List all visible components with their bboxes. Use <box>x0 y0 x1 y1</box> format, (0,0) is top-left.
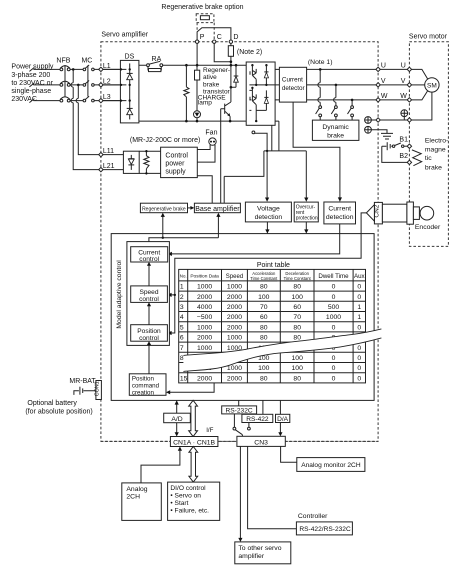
wire L21 to rectifier <box>103 169 123 171</box>
svg-text:7: 7 <box>180 345 184 352</box>
svg-text:supply: supply <box>165 169 186 176</box>
svg-text:100: 100 <box>292 355 304 362</box>
svg-text:detector: detector <box>282 85 305 92</box>
servo amplifier dashed enclosure <box>101 42 378 442</box>
break squiggle across table <box>183 329 381 372</box>
arrow command to position control <box>147 341 151 374</box>
battery MR-BAT <box>69 378 96 395</box>
svg-text:Fan: Fan <box>205 129 217 136</box>
ground PE amp 2 <box>365 126 372 133</box>
arrow CN3 to other servo amplifier <box>238 446 242 542</box>
analog 2CH box <box>122 483 161 521</box>
wire fan supply 2 <box>197 145 215 162</box>
svg-text:Position: Position <box>132 376 155 383</box>
terminal B2 <box>407 160 411 164</box>
terminal B1 <box>407 144 411 148</box>
svg-text:L2: L2 <box>103 78 111 85</box>
svg-text:RS-232C: RS-232C <box>226 407 253 414</box>
node bus diode <box>235 64 238 67</box>
svg-text:80: 80 <box>293 375 301 382</box>
wire U amp to motor <box>380 68 407 70</box>
DI/O control box <box>168 482 220 520</box>
control section box <box>111 234 374 401</box>
svg-text:CON1: CON1 <box>95 381 101 396</box>
svg-text:Position: Position <box>137 328 161 335</box>
svg-text:Encoder: Encoder <box>415 224 441 231</box>
wire gate bus to bottom rail <box>278 121 280 151</box>
wire SM frame ground <box>412 92 432 120</box>
svg-text:control: control <box>139 335 159 342</box>
svg-text:Servo motor: Servo motor <box>409 33 448 40</box>
terminal P <box>195 34 204 43</box>
svg-text:brake: brake <box>425 164 442 171</box>
arrow D/A to CN3 <box>278 423 282 437</box>
svg-text:Aux: Aux <box>354 273 366 280</box>
svg-text:V: V <box>401 78 406 85</box>
controller RS-422/RS-232C box <box>296 522 352 535</box>
node bus P <box>196 64 199 67</box>
node L1 tap <box>72 68 75 71</box>
svg-text:L21: L21 <box>103 163 115 170</box>
svg-text:80: 80 <box>260 284 268 291</box>
current detection box <box>324 202 356 224</box>
label regenerative brake transistor <box>203 67 231 96</box>
dynamic brake contacts channel V <box>331 85 337 120</box>
breaker NFB pole 3 <box>60 97 70 102</box>
wire P to bus <box>196 43 198 65</box>
wire CN3 to analog monitor <box>281 446 297 462</box>
svg-text:Time Constant: Time Constant <box>284 276 312 281</box>
svg-text:100: 100 <box>258 294 270 301</box>
wire point table to position command creation <box>166 383 214 395</box>
node bottom emitter <box>229 120 232 123</box>
svg-text:DS: DS <box>125 53 135 60</box>
wire input L3 row <box>29 99 120 103</box>
wire motor V to SM <box>412 84 425 86</box>
encoder body <box>382 202 433 224</box>
overcurrent protection box <box>294 202 318 222</box>
svg-text:(Note 2): (Note 2) <box>237 49 262 56</box>
wire W amp to motor <box>380 99 407 101</box>
svg-text:control: control <box>139 256 159 263</box>
electromagnetic brake coil mark <box>412 150 422 166</box>
motor SM <box>425 78 439 92</box>
svg-text:Current: Current <box>282 76 303 83</box>
svg-text:detection: detection <box>326 214 354 221</box>
contactor MC pole 3 <box>83 96 94 102</box>
node U tap <box>319 68 322 71</box>
svg-text:2000: 2000 <box>227 375 242 382</box>
model adaptive control inner box <box>127 242 169 346</box>
MC mechanical link <box>87 65 89 96</box>
regenerative brake control box <box>140 203 187 213</box>
node L2 tap <box>77 84 80 87</box>
svg-text:1000: 1000 <box>197 324 212 331</box>
point table grid <box>179 269 366 383</box>
svg-text:Base amplifier: Base amplifier <box>195 206 240 213</box>
speed control box <box>131 286 168 303</box>
interface bus arrow CN1B to DIO <box>189 447 198 483</box>
rectifier DS <box>120 53 139 123</box>
svg-text:detection: detection <box>255 214 283 221</box>
svg-text:0: 0 <box>332 365 336 372</box>
svg-text:2000: 2000 <box>227 314 242 321</box>
contactor MC pole 2 <box>83 81 94 87</box>
node V tap <box>335 84 338 87</box>
wire motor U to SM <box>412 69 428 79</box>
svg-text:60: 60 <box>293 304 301 311</box>
svg-text:ative: ative <box>203 74 217 81</box>
wire L2 tap down to L11 <box>76 85 99 155</box>
arrow voltage detection to control <box>265 222 269 234</box>
terminal U amp <box>376 63 386 72</box>
wire V amp to motor <box>380 84 407 86</box>
svg-text:Regenerative brake option: Regenerative brake option <box>161 4 243 11</box>
current control box <box>131 247 168 263</box>
wire input L2 row <box>29 83 120 87</box>
node bottom lamp <box>196 120 199 123</box>
svg-text:brake: brake <box>203 81 220 88</box>
wire L1 tap down to L21 <box>71 69 99 169</box>
svg-text:W: W <box>400 93 407 100</box>
analog monitor 2CH box <box>297 458 365 472</box>
current detector <box>279 67 306 102</box>
svg-text:2: 2 <box>180 294 184 301</box>
svg-text:80: 80 <box>260 375 268 382</box>
wire gate bus from module <box>264 125 306 151</box>
svg-text:Dynamic: Dynamic <box>322 124 349 131</box>
resistor regenerative brake <box>195 65 200 111</box>
svg-text:Time Constant: Time Constant <box>250 276 278 281</box>
svg-text:Current: Current <box>328 206 351 213</box>
wire current control to base amplifier and regen brake <box>149 213 221 247</box>
svg-text:3-phase 200: 3-phase 200 <box>11 72 50 79</box>
svg-text:6: 6 <box>180 335 184 342</box>
arrow speed to current control <box>147 262 151 286</box>
svg-text:CN1A · CN1B: CN1A · CN1B <box>173 439 215 446</box>
svg-text:3: 3 <box>180 304 184 311</box>
svg-text:100: 100 <box>258 365 270 372</box>
interface bus arrow control to CN1 <box>189 400 198 436</box>
to other servo amplifier box <box>235 542 291 564</box>
power module IGBT <box>246 62 275 125</box>
svg-text:2000: 2000 <box>227 304 242 311</box>
node bottom smoothing <box>185 120 188 123</box>
breaker NFB pole 2 <box>60 81 70 86</box>
svg-text:U: U <box>401 63 406 70</box>
svg-text:80: 80 <box>293 324 301 331</box>
terminal V amp <box>376 78 386 87</box>
point table header <box>180 271 366 281</box>
resistor inrush (RA bypass) <box>148 67 161 72</box>
fan <box>205 129 217 145</box>
svg-text:magne: magne <box>425 147 446 154</box>
terminal V motor <box>401 78 412 87</box>
terminal L21 <box>99 163 115 172</box>
wire ground link <box>380 119 407 121</box>
svg-text:NFB: NFB <box>56 57 70 64</box>
capacitor control zigzag <box>144 150 149 175</box>
svg-text:1000: 1000 <box>197 284 212 291</box>
transistor regenerative brake <box>221 65 231 203</box>
svg-text:RS-422/RS-232C: RS-422/RS-232C <box>299 526 351 533</box>
wire DC top bus <box>139 64 275 66</box>
svg-text:P: P <box>200 34 205 41</box>
svg-text:Controller: Controller <box>298 513 328 520</box>
svg-text:1000: 1000 <box>326 314 341 321</box>
svg-text:MR-BAT: MR-BAT <box>69 378 96 385</box>
svg-text:control: control <box>139 296 159 303</box>
svg-text:• Failure, etc.: • Failure, etc. <box>170 508 209 515</box>
NFB mechanical link <box>64 65 66 97</box>
svg-text:No.: No. <box>180 274 187 279</box>
label power supply <box>11 63 54 103</box>
svg-text:Analog: Analog <box>126 486 147 493</box>
wire rectifier to control power supply top <box>139 150 160 152</box>
svg-text:0: 0 <box>357 375 361 382</box>
svg-text:protection: protection <box>296 215 318 221</box>
svg-text:tic: tic <box>425 155 432 162</box>
svg-text:60: 60 <box>260 314 268 321</box>
dynamic brake contacts channel U <box>316 69 322 120</box>
svg-text:100: 100 <box>292 365 304 372</box>
svg-text:A/D: A/D <box>171 416 182 423</box>
label electromagnetic brake <box>425 137 448 171</box>
svg-text:To other servo: To other servo <box>238 545 281 552</box>
svg-text:brake: brake <box>327 133 344 140</box>
svg-text:4: 4 <box>180 314 184 321</box>
earth ground symbol <box>371 130 393 139</box>
wire current detection to current control <box>168 224 340 256</box>
svg-text:(Note 1): (Note 1) <box>308 59 333 66</box>
cable arrow CN2 <box>366 205 374 221</box>
node regen collector <box>230 86 233 89</box>
svg-text:0: 0 <box>332 355 336 362</box>
position control box <box>131 325 168 342</box>
svg-text:Regenerative brake: Regenerative brake <box>142 206 186 212</box>
svg-text:70: 70 <box>260 304 268 311</box>
svg-text:70: 70 <box>293 314 301 321</box>
svg-text:Position Data: Position Data <box>190 274 219 280</box>
dynamic brake contacts channel W <box>348 100 354 120</box>
terminal ground amp <box>376 118 380 122</box>
svg-text:V: V <box>381 78 386 85</box>
svg-text:Servo amplifier: Servo amplifier <box>101 31 148 38</box>
svg-text:DI/O control: DI/O control <box>170 485 206 492</box>
connector CN2 <box>374 202 383 224</box>
node W tap <box>351 99 354 102</box>
svg-text:C: C <box>217 34 222 41</box>
svg-text:B2: B2 <box>399 153 408 160</box>
svg-text:−500: −500 <box>197 314 213 321</box>
svg-text:Dwell Time: Dwell Time <box>318 273 349 280</box>
svg-text:Voltage: Voltage <box>257 206 280 213</box>
svg-text:L11: L11 <box>103 148 114 155</box>
node bus smoothing <box>185 64 188 67</box>
wire DC bottom bus <box>139 120 279 122</box>
battery brake circuit <box>382 142 407 162</box>
svg-text:80: 80 <box>293 284 301 291</box>
dashed lead option to P <box>196 23 198 31</box>
svg-text:4000: 4000 <box>197 304 212 311</box>
svg-text:B1: B1 <box>399 137 408 144</box>
svg-text:to 230VAC or: to 230VAC or <box>11 80 53 87</box>
svg-text:Model adaptive control: Model adaptive control <box>116 260 123 329</box>
wire L2 into DS <box>103 84 120 86</box>
ground PE motor <box>401 110 408 120</box>
svg-text:Point table: Point table <box>257 262 290 269</box>
svg-text:15: 15 <box>180 375 188 382</box>
svg-text:Electro-: Electro- <box>425 137 448 144</box>
wire encoder feedback CN2 to speed and position control <box>167 213 366 335</box>
svg-text:0: 0 <box>357 365 361 372</box>
wire L1 into DS <box>103 68 120 70</box>
resistor (Note 2) <box>228 43 262 65</box>
svg-text:2000: 2000 <box>227 324 242 331</box>
diode regen freewheel <box>231 65 238 87</box>
terminal U motor <box>401 63 412 72</box>
arrow position to speed control <box>147 302 151 324</box>
wire module to current detector U V W <box>275 69 279 100</box>
converter A/D box <box>164 413 191 423</box>
svg-text:1000: 1000 <box>227 284 242 291</box>
svg-text:amplifier: amplifier <box>238 553 264 560</box>
svg-text:100: 100 <box>292 294 304 301</box>
node bus D <box>230 64 233 67</box>
svg-text:L1: L1 <box>103 63 111 70</box>
capacitor smoothing zigzag <box>184 65 189 121</box>
svg-text:Control: Control <box>165 153 188 160</box>
terminal D <box>229 34 238 43</box>
breaker NFB pole 1 <box>60 66 70 71</box>
connector CON1 <box>95 381 102 400</box>
wire L11 to rectifier <box>103 154 123 156</box>
servo motor dashed enclosure <box>409 42 448 247</box>
D/A box <box>276 400 290 423</box>
svg-text:creation: creation <box>132 390 155 397</box>
svg-text:CN3: CN3 <box>254 439 268 446</box>
svg-text:MC: MC <box>81 57 92 64</box>
svg-text:8: 8 <box>180 355 184 362</box>
wire PE to motor ground <box>371 119 376 121</box>
terminal W amp <box>376 93 388 102</box>
ground PE amp 1 <box>365 117 372 124</box>
wire CN1A to analog 2CH <box>141 447 182 483</box>
svg-text:1000: 1000 <box>227 335 242 342</box>
svg-text:• Start: • Start <box>170 500 188 507</box>
svg-text:D/A: D/A <box>277 416 289 423</box>
wire phase V <box>307 84 376 86</box>
svg-text:D: D <box>233 34 238 41</box>
wire phase U <box>307 68 376 70</box>
RS-422 box <box>242 400 273 423</box>
terminal ground motor <box>407 118 411 122</box>
svg-text:command: command <box>132 383 160 390</box>
wire rectifier to control power supply bottom <box>139 172 160 174</box>
svg-text:lamp: lamp <box>198 100 212 107</box>
position command creation box <box>129 374 166 397</box>
svg-text:0: 0 <box>357 324 361 331</box>
svg-text:0: 0 <box>332 294 336 301</box>
wire control power supply to base amplifier <box>197 176 212 204</box>
svg-text:5: 5 <box>180 324 184 331</box>
svg-text:0: 0 <box>357 284 361 291</box>
svg-text:2CH: 2CH <box>126 494 140 501</box>
lamp CHARGE <box>194 111 201 121</box>
svg-text:L3: L3 <box>103 94 111 101</box>
connector CN3 <box>237 436 285 446</box>
svg-text:0: 0 <box>332 324 336 331</box>
switch RS selector <box>233 414 250 436</box>
svg-text:(for absolute position): (for absolute position) <box>25 409 92 416</box>
wire gate to overcurrent protection <box>304 151 308 202</box>
svg-text:Analog monitor 2CH: Analog monitor 2CH <box>301 462 361 469</box>
svg-text:2000: 2000 <box>197 375 212 382</box>
svg-text:Optional battery: Optional battery <box>27 400 77 407</box>
label CHARGE lamp <box>198 94 226 106</box>
wire voltage detection feed <box>252 131 269 202</box>
svg-text:Speed: Speed <box>226 274 243 280</box>
svg-text:1: 1 <box>357 314 361 321</box>
svg-text:500: 500 <box>328 304 340 311</box>
svg-text:Regener-: Regener- <box>203 67 230 74</box>
svg-text:0: 0 <box>357 355 361 362</box>
wire motor W to SM <box>412 91 428 100</box>
svg-text:power: power <box>165 161 185 168</box>
arrow regenerative brake to base amplifier <box>188 206 195 210</box>
connector CN1A CN1B <box>170 437 218 447</box>
svg-text:• Servo on: • Servo on <box>170 493 201 500</box>
point table data rows <box>180 284 362 383</box>
contactor MC pole 1 <box>83 65 94 71</box>
servo amplifier bottom dashed edge segments <box>101 440 378 442</box>
wire CN3 to controller <box>248 446 297 528</box>
rectifier control circuit <box>123 151 139 173</box>
base amplifier box <box>194 203 240 213</box>
RS-232C box <box>222 400 257 414</box>
svg-text:2000: 2000 <box>197 294 212 301</box>
svg-text:80: 80 <box>260 324 268 331</box>
wire L3 into DS <box>103 100 120 102</box>
svg-text:0: 0 <box>332 375 336 382</box>
svg-text:2000: 2000 <box>227 294 242 301</box>
arrow control to A/D to CN1 <box>175 400 179 436</box>
svg-text:I/F: I/F <box>206 427 213 434</box>
svg-text:1: 1 <box>357 304 361 311</box>
terminal C <box>213 34 222 43</box>
svg-text:W: W <box>381 93 388 100</box>
svg-text:SM: SM <box>427 82 437 89</box>
wire fan supply 1 <box>197 145 210 150</box>
wire phase W <box>307 99 376 101</box>
terminal L3 <box>99 94 111 103</box>
control power supply <box>161 147 198 177</box>
terminal L11 <box>99 148 114 157</box>
dashed lead option to C <box>213 23 215 40</box>
voltage detection box <box>245 202 291 222</box>
svg-text:RS-422: RS-422 <box>246 416 269 423</box>
svg-text:80: 80 <box>260 335 268 342</box>
wire C to D node <box>214 43 231 61</box>
svg-text:single-phase: single-phase <box>11 88 51 95</box>
svg-text:U: U <box>381 63 386 70</box>
wire P-D jumper <box>197 28 231 40</box>
wire gate bus to base amplifier <box>224 151 264 203</box>
svg-text:Speed: Speed <box>139 289 158 296</box>
svg-text:1000: 1000 <box>197 345 212 352</box>
wire current detector to current detection <box>293 102 342 202</box>
svg-text:1: 1 <box>180 284 184 291</box>
